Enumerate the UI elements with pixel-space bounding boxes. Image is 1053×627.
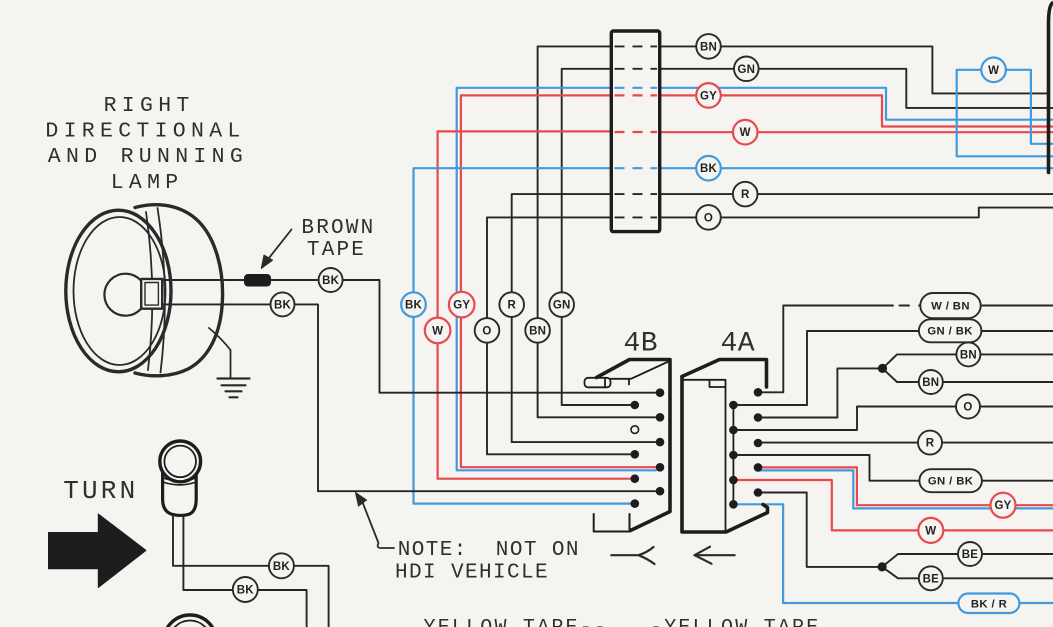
wire turn lead B (black) <box>183 515 306 627</box>
dashed wires inside conduit <box>615 45 658 47</box>
label BE upper <box>958 542 982 566</box>
turn bulb socket body <box>163 468 197 515</box>
wire BE double (black) from 4A pin9 with junction <box>758 493 1053 579</box>
label GY red <box>696 83 721 108</box>
svg-text:TAPE: TAPE <box>307 239 366 262</box>
svg-text:BN: BN <box>922 377 939 389</box>
NOTE leader arrow <box>356 493 395 549</box>
svg-text:BE: BE <box>923 573 940 585</box>
wire lamp bottom lead (black) to 4B pin9 <box>162 304 656 491</box>
junction dot BE <box>878 562 887 571</box>
wire O (black) from 4A pin4 <box>733 407 1053 431</box>
svg-text:HDI VEHICLE: HDI VEHICLE <box>395 562 549 585</box>
svg-text:GN / BK: GN / BK <box>928 476 974 488</box>
fork symbol under 4B <box>611 547 654 564</box>
ground lead <box>209 328 231 377</box>
svg-text:BK: BK <box>273 561 291 573</box>
label BN column <box>525 318 550 343</box>
svg-text:YELLOW TAPE--: YELLOW TAPE-- <box>424 617 609 627</box>
wire code label circles <box>233 34 1020 613</box>
junction dot BN <box>878 364 887 373</box>
4B pins <box>631 388 665 508</box>
lamp bulb <box>104 274 146 316</box>
svg-text:BK: BK <box>700 163 718 175</box>
label W red column <box>425 318 451 344</box>
conduit (grommet) <box>611 31 659 232</box>
wire W loop (blue) top right <box>957 70 1053 157</box>
svg-text:4B: 4B <box>624 329 659 360</box>
wire GN/BK (black) from 4A pin2 <box>733 331 1053 405</box>
brown tape wrap <box>245 275 271 287</box>
wire BN double (black) from 4A pin3 with junction <box>758 354 1053 417</box>
lamp housing outline <box>135 205 223 376</box>
label W red <box>733 120 758 145</box>
svg-text:O: O <box>482 325 491 337</box>
lamp socket <box>141 279 162 309</box>
label GN / BK stadium <box>919 319 982 342</box>
wire BK/R (blue) from 4A pin10 <box>733 504 1053 603</box>
svg-text:GN: GN <box>553 300 571 312</box>
svg-text:GN: GN <box>737 64 755 76</box>
label O column <box>475 318 500 343</box>
svg-text:BE: BE <box>962 549 979 561</box>
svg-text:BN: BN <box>960 349 977 361</box>
label O <box>696 205 721 230</box>
svg-text:R: R <box>926 438 935 450</box>
svg-text:R: R <box>507 300 516 312</box>
svg-text:BROWN: BROWN <box>301 217 375 240</box>
label GY red column <box>449 292 475 318</box>
wire R (black) from 4A pin5 <box>758 442 1053 444</box>
connector 4A body <box>682 360 768 533</box>
svg-text:O: O <box>963 402 972 414</box>
label BN right lower <box>919 370 943 394</box>
wire turn lead A (black) <box>173 515 329 627</box>
svg-text:NOTE: NOT ON: NOTE: NOT ON <box>398 539 580 562</box>
second turn bulb (cut off at bottom) <box>164 615 217 627</box>
svg-text:W: W <box>432 325 443 337</box>
right directional lamp assembly <box>66 205 656 491</box>
wire GN/BK lower (black) from 4A pin6 <box>733 455 1053 481</box>
label BK lamp bottom <box>271 292 295 316</box>
svg-text:GY: GY <box>994 500 1011 512</box>
label BN right upper <box>956 342 980 366</box>
label BK turn lower <box>233 577 258 602</box>
svg-text:RIGHT: RIGHT <box>104 94 195 118</box>
svg-text:W: W <box>740 127 751 139</box>
svg-text:BN: BN <box>529 325 546 337</box>
svg-text:GY: GY <box>453 300 470 312</box>
wire GY (red) to 4B pin7 upper <box>660 95 1053 126</box>
label BK blue <box>696 156 721 181</box>
svg-text:W / BN: W / BN <box>931 301 970 313</box>
wire BN (black) left + vertical to 4B pin3 <box>660 46 1047 93</box>
label R column <box>499 292 524 317</box>
svg-text:BK: BK <box>405 300 423 312</box>
wire lamp top lead (black, brown tape) to 4B pin1 <box>162 280 656 393</box>
label BE lower <box>919 566 943 590</box>
label BK blue column <box>401 292 426 317</box>
svg-text:O: O <box>704 212 713 224</box>
label R <box>733 182 758 207</box>
svg-text:GY: GY <box>700 90 717 102</box>
label BN <box>696 34 721 59</box>
label O right <box>956 395 980 419</box>
label GN column <box>549 292 574 317</box>
label W right red <box>918 518 943 543</box>
label W loop blue <box>981 58 1006 83</box>
svg-text:4A: 4A <box>721 329 756 360</box>
wire W/BN (black) from 4A pin1 <box>758 306 1053 393</box>
wire GY (red) from 4A pin7 <box>758 467 1053 505</box>
svg-text:AND RUNNING: AND RUNNING <box>48 145 248 169</box>
svg-text:BK: BK <box>237 585 255 597</box>
label GY right red <box>991 493 1016 518</box>
wire R (black) to 4B pin5 <box>660 193 1053 195</box>
label R right <box>918 431 942 455</box>
label W / BN stadium <box>920 293 980 318</box>
turn arrow (filled) <box>49 514 147 588</box>
connector 4B body <box>585 360 671 532</box>
wire pair blue from 4A pin7 <box>758 470 1053 508</box>
turn bulb neck lines <box>163 478 197 485</box>
label BK / R stadium blue <box>958 594 1019 614</box>
wire BK (blue) to 4B pin10 <box>660 167 1053 169</box>
wire W (red) to 4B pin8 <box>660 131 1053 133</box>
connector stub top-right edge <box>1049 3 1053 173</box>
svg-text:R: R <box>741 189 750 201</box>
svg-text:BK / R: BK / R <box>971 599 1007 611</box>
svg-text:BK: BK <box>322 275 340 287</box>
brown tape leader arrow <box>267 230 292 261</box>
svg-text:BK: BK <box>274 299 292 311</box>
open pin position 4B <box>631 426 639 434</box>
lamp front rim ellipse inner <box>74 217 166 365</box>
turn bulb top circle <box>160 441 201 482</box>
4A pins <box>729 388 762 509</box>
arrow symbol under 4A <box>695 547 735 564</box>
svg-text:LAMP: LAMP <box>111 171 184 195</box>
svg-text:W: W <box>988 65 999 77</box>
svg-text:DIRECTIONAL: DIRECTIONAL <box>45 120 245 144</box>
label GN <box>734 57 759 82</box>
lamp front rim ellipse outer <box>66 210 171 372</box>
label BK turn upper <box>269 553 294 578</box>
wire O (black) to 4B pin6 <box>660 208 1053 218</box>
svg-text:-YELLOW TAPE: -YELLOW TAPE <box>650 617 820 627</box>
svg-text:GN / BK: GN / BK <box>927 326 973 338</box>
wire blue (unlabeled) to 4B pin7 lower <box>660 88 1053 120</box>
harness wires through conduit <box>414 46 1053 503</box>
svg-text:W: W <box>925 525 936 537</box>
wire GN (black) + vertical to 4B pin2 <box>660 69 1053 108</box>
TURN signal group <box>49 441 329 627</box>
4A output wires <box>733 306 1053 604</box>
wire W (red) from 4A pin8 <box>733 480 1053 530</box>
label GN / BK stadium lower <box>919 469 982 492</box>
lamp rim band arcs <box>146 212 152 370</box>
label BK lamp top <box>319 268 343 292</box>
ground symbol <box>218 379 250 398</box>
svg-text:TURN: TURN <box>63 476 138 506</box>
svg-text:BN: BN <box>700 41 717 53</box>
